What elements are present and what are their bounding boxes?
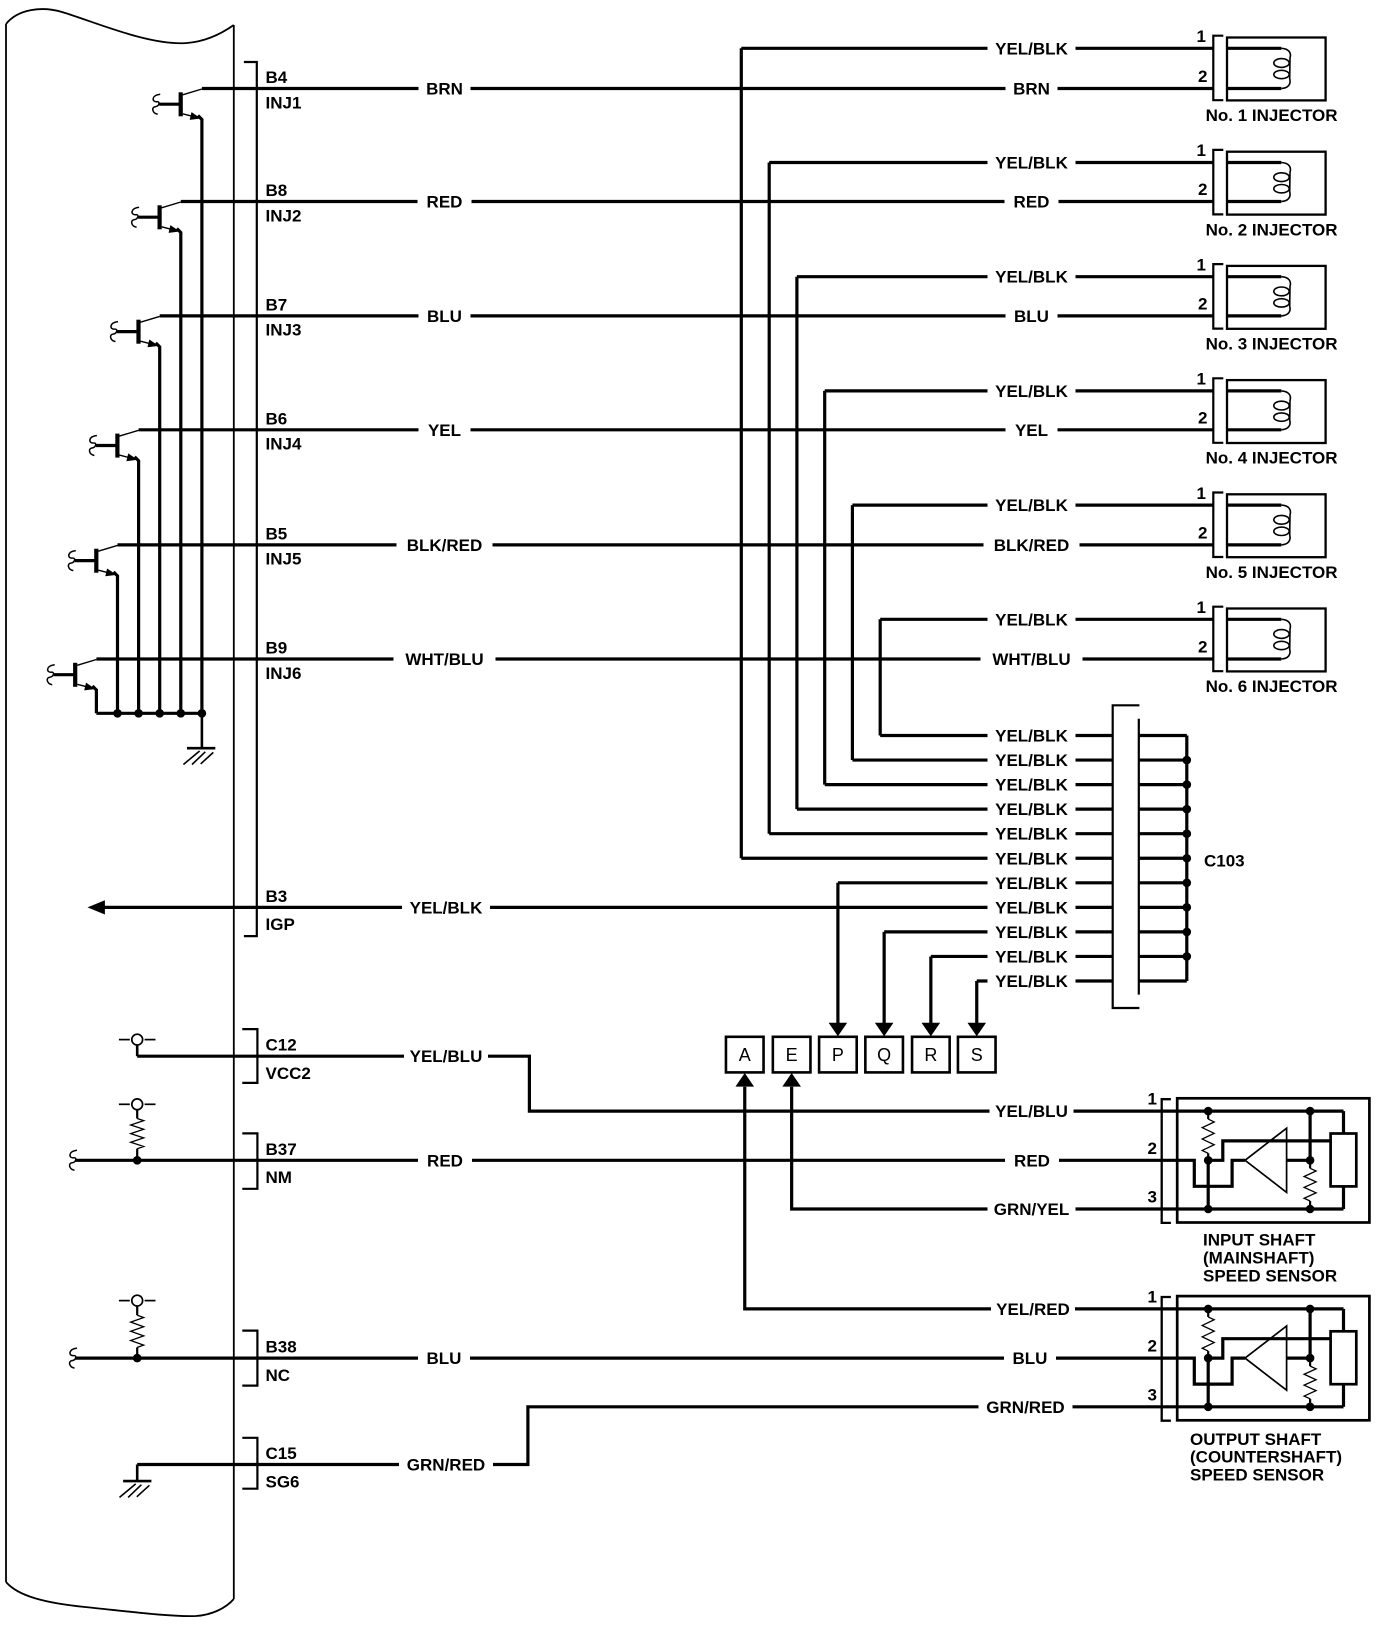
coil L No.5 injector bbox=[1274, 505, 1291, 545]
connector C103 mating half bbox=[1138, 719, 1140, 995]
terminal box Q bbox=[865, 1037, 903, 1073]
wire YEL/BLK C103 pin row 4 bbox=[797, 808, 1113, 811]
pin label C15/SG6 bbox=[266, 1444, 300, 1491]
terminal box A bbox=[726, 1037, 764, 1073]
connector bracket No.5 injector bbox=[1213, 493, 1223, 558]
svg-text:2: 2 bbox=[1198, 409, 1207, 428]
svg-text:Q: Q bbox=[877, 1045, 891, 1065]
junction top rail / right bus bbox=[1306, 1305, 1315, 1314]
label output shaft speed sensor bbox=[1190, 1430, 1342, 1485]
wire sensor internal top rail bbox=[1177, 1307, 1343, 1310]
wire C103 common bus bbox=[1185, 736, 1188, 982]
label YEL/BLU (right) bbox=[990, 1102, 1074, 1120]
resistor load (box) bbox=[1331, 1134, 1357, 1187]
svg-text:B9: B9 bbox=[266, 639, 288, 658]
svg-text:INPUT SHAFT: INPUT SHAFT bbox=[1203, 1231, 1316, 1250]
wire C103 pin 4 stub bbox=[1139, 808, 1187, 811]
label YEL/BLK C103 row 3 bbox=[988, 776, 1076, 794]
wire C103 pin 3 stub bbox=[1139, 783, 1187, 786]
wire sensor internal bottom rail bbox=[1177, 1207, 1343, 1210]
wire WHT/BLU ECU pin B9 to No.6 injector pin 2 bbox=[96, 657, 1213, 660]
svg-text:NM: NM bbox=[266, 1168, 292, 1187]
wire vertical to terminal Q bbox=[883, 932, 886, 1025]
label YEL/BLK C103 row 5 bbox=[988, 825, 1076, 843]
label YEL/BLK B3 bbox=[402, 898, 490, 916]
svg-text:YEL: YEL bbox=[428, 421, 461, 440]
label YEL (right) bbox=[1006, 421, 1058, 439]
connector bracket B38 bbox=[242, 1331, 257, 1386]
pin label B8/INJ2 bbox=[266, 181, 302, 225]
transistor INJ4 driver bbox=[89, 430, 138, 461]
coil L No.2 injector bbox=[1274, 163, 1291, 202]
No.5 injector body bbox=[1227, 494, 1326, 557]
transistor INJ5 driver bbox=[68, 545, 117, 576]
wire right bus bbox=[1308, 1309, 1311, 1358]
wire BLK/RED ECU pin B5 to No.5 injector pin 2 bbox=[118, 543, 1214, 546]
svg-text:C12: C12 bbox=[266, 1036, 297, 1055]
wire YEL/BLK vertical injector 4 to C103 bbox=[823, 391, 826, 785]
svg-text:B4: B4 bbox=[266, 68, 288, 87]
resistor sensor left pull-up bbox=[1207, 1309, 1209, 1317]
wire YEL/BLK C103 pin row 1 bbox=[880, 734, 1112, 737]
svg-text:YEL/RED: YEL/RED bbox=[996, 1300, 1070, 1319]
No.2 injector body bbox=[1227, 152, 1326, 215]
svg-text:2: 2 bbox=[1148, 1337, 1157, 1356]
svg-text:YEL/BLK: YEL/BLK bbox=[995, 382, 1068, 401]
wire load resistor to bottom rail bbox=[1342, 1186, 1345, 1209]
svg-text:RED: RED bbox=[427, 1151, 463, 1170]
wire emitter common bus bbox=[96, 712, 201, 715]
wire YEL/BLK vertical injector 5 to C103 bbox=[851, 505, 854, 760]
svg-text:INJ6: INJ6 bbox=[266, 664, 302, 683]
junction bottom rail / right resistor bbox=[1306, 1403, 1315, 1412]
svg-text:3: 3 bbox=[1148, 1385, 1157, 1404]
label WHT/BLU (left) bbox=[394, 650, 496, 668]
svg-text:B38: B38 bbox=[266, 1338, 297, 1357]
svg-text:INJ4: INJ4 bbox=[266, 435, 302, 454]
junction top rail / left resistor bbox=[1204, 1107, 1213, 1116]
wire YEL/BLK No.5 injector pin 1 bbox=[852, 504, 1213, 507]
junction C103 bus row 2 bbox=[1183, 756, 1192, 765]
wire injector 6 coil lead pin 1 bbox=[1227, 618, 1281, 621]
wire C103 pin 1 stub bbox=[1139, 734, 1187, 737]
svg-text:BRN: BRN bbox=[1013, 80, 1050, 99]
pin label B3/IGP bbox=[266, 887, 295, 934]
No.3 injector body bbox=[1227, 266, 1326, 329]
svg-text:RED: RED bbox=[1014, 193, 1050, 212]
svg-text:RED: RED bbox=[1014, 1151, 1050, 1170]
op-amp comparator bbox=[1245, 1326, 1287, 1390]
wire YEL/BLK C103 row 9 to terminal Q bbox=[884, 930, 1113, 933]
wire C103 pin 11 stub bbox=[1139, 979, 1187, 982]
wire YEL/BLK vertical injector 2 to C103 bbox=[768, 163, 771, 834]
wire amp output to right bus bbox=[1287, 1356, 1311, 1359]
wire injector 1 coil lead pin 2 bbox=[1227, 87, 1281, 90]
terminal box R bbox=[912, 1037, 950, 1073]
terminal pull-up B37 bbox=[119, 1099, 156, 1119]
svg-text:YEL/BLK: YEL/BLK bbox=[995, 496, 1068, 515]
wire C103 pin 2 stub bbox=[1139, 758, 1187, 761]
svg-text:3: 3 bbox=[1148, 1188, 1157, 1207]
svg-text:YEL/BLK: YEL/BLK bbox=[995, 751, 1068, 770]
coil L No.3 injector bbox=[1274, 277, 1291, 316]
wire vertical to terminal P bbox=[836, 883, 839, 1025]
transistor INJ6 driver bbox=[47, 660, 96, 691]
wire YEL/BLK C103 pin row 5 bbox=[769, 832, 1112, 835]
svg-text:YEL/BLK: YEL/BLK bbox=[995, 874, 1068, 893]
connector bracket ECU pins B4-B3 bbox=[244, 62, 257, 936]
junction emitter bus / INJ3 bbox=[155, 709, 164, 718]
label YEL/BLK C103 row 6 bbox=[988, 849, 1076, 867]
wire YEL/BLK No.4 injector pin 1 bbox=[825, 389, 1214, 392]
junction C103 bus row 10 bbox=[1183, 952, 1192, 961]
junction bottom rail / left branch bbox=[1204, 1403, 1213, 1412]
label BLU output sensor bbox=[1004, 1349, 1056, 1367]
wire C103 pin 10 stub bbox=[1139, 955, 1187, 958]
wire YEL/BLK No.2 injector pin 1 bbox=[769, 161, 1213, 164]
junction C103 bus row 6 bbox=[1183, 854, 1192, 863]
resistor sensor right bbox=[1309, 1358, 1311, 1366]
arrow into terminal E bbox=[782, 1073, 801, 1087]
connector bracket No.6 injector bbox=[1213, 607, 1223, 672]
ground (injector drivers) bbox=[183, 748, 215, 764]
label YEL/BLK injector 3 pin1 bbox=[988, 268, 1076, 286]
connector bracket C12 bbox=[242, 1029, 257, 1083]
wire YEL/BLK C103 pin row 2 bbox=[852, 758, 1112, 761]
wire amp output to right bus bbox=[1287, 1159, 1311, 1162]
svg-text:YEL/BLU: YEL/BLU bbox=[995, 1102, 1068, 1121]
junction left resistor / signal node bbox=[1204, 1156, 1213, 1165]
input shaft speed sensor body bbox=[1177, 1098, 1369, 1222]
wire injector 3 coil lead pin 2 bbox=[1227, 314, 1281, 317]
svg-text:YEL/BLK: YEL/BLK bbox=[995, 849, 1068, 868]
svg-text:No. 2 INJECTOR: No. 2 INJECTOR bbox=[1206, 220, 1338, 239]
wire C103 pin 9 stub bbox=[1139, 930, 1187, 933]
label RED input sensor bbox=[1005, 1151, 1059, 1169]
svg-text:1: 1 bbox=[1148, 1287, 1157, 1306]
wire YEL/BLK C103 row 11 to terminal S bbox=[977, 979, 1113, 982]
svg-text:1: 1 bbox=[1197, 598, 1206, 617]
wire continuation mark B38 bbox=[70, 1348, 77, 1368]
arrow IGP out (left) bbox=[88, 900, 105, 914]
svg-text:IGP: IGP bbox=[266, 915, 295, 934]
pin label B9/INJ6 bbox=[266, 639, 302, 683]
junction C103 bus row 8 bbox=[1183, 903, 1192, 912]
ground SG6 bbox=[120, 1465, 152, 1498]
pin label C12/VCC2 bbox=[266, 1036, 311, 1083]
wire pin 2 entry jog bbox=[1177, 1358, 1245, 1384]
resistor pull-up NM bbox=[131, 1119, 144, 1149]
wire BLU B38 NC to output sensor pin 2 bbox=[75, 1356, 1177, 1359]
wire YEL/BLK vertical injector 3 to C103 bbox=[795, 277, 798, 809]
No.4 injector body bbox=[1227, 380, 1326, 443]
svg-text:No. 1 INJECTOR: No. 1 INJECTOR bbox=[1206, 106, 1338, 125]
wire vertical to terminal S bbox=[975, 981, 978, 1025]
svg-text:RED: RED bbox=[427, 193, 463, 212]
label BRN (left) bbox=[419, 80, 471, 98]
svg-text:INJ3: INJ3 bbox=[266, 321, 302, 340]
transistor INJ1 driver bbox=[153, 89, 202, 120]
ECU sheet torn top edge bbox=[6, 9, 234, 43]
junction bottom rail / right resistor bbox=[1306, 1205, 1315, 1214]
label YEL/BLK C103 row 8 bbox=[988, 898, 1076, 916]
terminal VCC2 supply bbox=[119, 1034, 156, 1056]
svg-text:E: E bbox=[786, 1045, 798, 1065]
svg-text:OUTPUT SHAFT: OUTPUT SHAFT bbox=[1190, 1430, 1322, 1449]
svg-text:2: 2 bbox=[1198, 180, 1207, 199]
svg-text:YEL/BLK: YEL/BLK bbox=[995, 268, 1068, 287]
terminal box P bbox=[819, 1037, 857, 1073]
svg-text:2: 2 bbox=[1198, 67, 1207, 86]
label YEL/BLK C103 row 10 bbox=[988, 947, 1076, 965]
label YEL (left) bbox=[419, 421, 471, 439]
arrow into terminal S bbox=[967, 1023, 986, 1036]
wire YEL/BLK C103 pin row 6 bbox=[741, 857, 1112, 860]
pin label B5/INJ5 bbox=[266, 524, 302, 568]
junction C103 bus row 5 bbox=[1183, 829, 1192, 838]
wire YEL/BLK No.6 injector pin 1 bbox=[880, 618, 1213, 621]
wire signal node to bottom rail bbox=[1207, 1160, 1210, 1209]
label YEL/BLK C103 row 4 bbox=[988, 800, 1076, 818]
svg-text:YEL/BLK: YEL/BLK bbox=[995, 825, 1068, 844]
label BLU (right) bbox=[1006, 307, 1058, 325]
svg-text:1: 1 bbox=[1197, 255, 1206, 274]
wire YEL/RED terminal A to output sensor pin 1 bbox=[745, 1087, 1177, 1309]
svg-text:2: 2 bbox=[1198, 524, 1207, 543]
label YEL/BLK C103 row 9 bbox=[988, 923, 1076, 941]
svg-text:INJ2: INJ2 bbox=[266, 206, 302, 225]
svg-text:B37: B37 bbox=[266, 1140, 297, 1159]
svg-text:B3: B3 bbox=[266, 887, 288, 906]
svg-text:BRN: BRN bbox=[426, 80, 463, 99]
svg-text:SG6: SG6 bbox=[266, 1472, 300, 1491]
svg-text:YEL: YEL bbox=[1015, 421, 1048, 440]
terminal pull-up B38 bbox=[119, 1295, 156, 1315]
wire injector 1 coil lead pin 1 bbox=[1227, 47, 1281, 50]
wire YEL/BLK vertical injector 1 to C103 bbox=[740, 48, 743, 858]
label YEL/BLK injector 5 pin1 bbox=[988, 496, 1076, 514]
junction emitter bus / INJ5 bbox=[113, 709, 122, 718]
pin label B37/NM bbox=[266, 1140, 297, 1187]
resistor sensor right bbox=[1309, 1160, 1311, 1168]
wire emitter INJ4 to ground bus bbox=[135, 457, 139, 714]
svg-text:NC: NC bbox=[266, 1366, 291, 1385]
No.1 injector body bbox=[1227, 38, 1326, 101]
label YEL/BLK injector 2 pin1 bbox=[988, 154, 1076, 172]
svg-text:YEL/BLK: YEL/BLK bbox=[995, 776, 1068, 795]
arrow into terminal A bbox=[735, 1073, 754, 1087]
label BLU B38 bbox=[418, 1349, 470, 1367]
label YEL/BLK injector 6 pin1 bbox=[988, 610, 1076, 628]
terminal box S bbox=[958, 1037, 996, 1073]
op-amp comparator bbox=[1245, 1128, 1287, 1192]
label GRN/RED (left) bbox=[399, 1456, 493, 1474]
connector bracket No.2 injector bbox=[1213, 150, 1223, 215]
junction C103 bus row 3 bbox=[1183, 780, 1192, 789]
wire injector 4 coil lead pin 1 bbox=[1227, 389, 1281, 392]
wire YEL/BLK No.3 injector pin 1 bbox=[797, 275, 1213, 278]
transistor INJ2 driver bbox=[132, 202, 181, 233]
svg-text:B7: B7 bbox=[266, 295, 288, 314]
wire BLU ECU pin B7 to No.3 injector pin 2 bbox=[160, 314, 1214, 317]
svg-text:GRN/RED: GRN/RED bbox=[986, 1398, 1064, 1417]
label RED (right) bbox=[1005, 193, 1059, 211]
connector bracket No.4 injector bbox=[1213, 378, 1223, 443]
wire YEL/BLK C103 row 7 to terminal P bbox=[838, 881, 1113, 884]
terminal box E bbox=[773, 1037, 811, 1073]
svg-text:VCC2: VCC2 bbox=[266, 1064, 311, 1083]
label input shaft speed sensor bbox=[1203, 1231, 1337, 1286]
svg-text:1: 1 bbox=[1148, 1090, 1157, 1109]
junction left resistor / signal node bbox=[1204, 1354, 1213, 1363]
svg-text:(MAINSHAFT): (MAINSHAFT) bbox=[1203, 1249, 1314, 1268]
wire BRN ECU pin B4 to No.1 injector pin 2 bbox=[202, 87, 1213, 90]
wire signal node to bottom rail bbox=[1207, 1358, 1210, 1407]
connector C103 bracket bbox=[1113, 705, 1140, 1008]
coil L No.4 injector bbox=[1274, 391, 1291, 430]
svg-text:No. 5 INJECTOR: No. 5 INJECTOR bbox=[1206, 563, 1338, 582]
wire injector 6 coil lead pin 2 bbox=[1227, 657, 1281, 660]
svg-text:YEL/BLK: YEL/BLK bbox=[995, 898, 1068, 917]
wire GRN/RED C15 SG6 to output sensor pin 3 bbox=[137, 1407, 1177, 1465]
label WHT/BLU (right) bbox=[981, 650, 1083, 668]
wire signal node to amp upper input bbox=[1208, 1339, 1330, 1358]
arrow into terminal R bbox=[922, 1023, 941, 1036]
junction C103 bus row 7 bbox=[1183, 879, 1192, 888]
svg-text:BLK/RED: BLK/RED bbox=[994, 536, 1070, 555]
svg-text:YEL/BLK: YEL/BLK bbox=[995, 39, 1068, 58]
label BLK/RED (right) bbox=[984, 536, 1080, 554]
label BLU (left) bbox=[419, 307, 471, 325]
wire injector 5 coil lead pin 2 bbox=[1227, 543, 1281, 546]
pin label B38/NC bbox=[266, 1338, 297, 1385]
svg-text:S: S bbox=[971, 1045, 983, 1065]
svg-text:GRN/YEL: GRN/YEL bbox=[994, 1200, 1070, 1219]
svg-text:WHT/BLU: WHT/BLU bbox=[405, 650, 483, 669]
svg-text:B6: B6 bbox=[266, 409, 288, 428]
wire injector 3 coil lead pin 1 bbox=[1227, 275, 1281, 278]
wire YEL ECU pin B6 to No.4 injector pin 2 bbox=[139, 428, 1214, 431]
wire RED B37 NM to input sensor pin 2 bbox=[75, 1159, 1177, 1162]
ECU sheet left border bbox=[5, 24, 7, 1582]
svg-text:SPEED SENSOR: SPEED SENSOR bbox=[1190, 1466, 1324, 1485]
wire C103 pin 8 stub bbox=[1139, 906, 1187, 909]
svg-text:C15: C15 bbox=[266, 1444, 297, 1463]
svg-text:YEL/BLK: YEL/BLK bbox=[995, 610, 1068, 629]
junction top rail / right bus bbox=[1306, 1107, 1315, 1116]
pin label B6/INJ4 bbox=[266, 409, 302, 453]
wire injector 2 coil lead pin 2 bbox=[1227, 200, 1281, 203]
wire bus to ground bbox=[201, 713, 204, 748]
wire YEL/BLK C103 row 10 to terminal R bbox=[931, 955, 1113, 958]
wire pin 2 entry jog bbox=[1177, 1160, 1245, 1186]
wire C103 pin 6 stub bbox=[1139, 857, 1187, 860]
arrow into terminal Q bbox=[875, 1023, 894, 1036]
wire emitter INJ6 to ground bus bbox=[92, 686, 96, 713]
label BLK/RED (left) bbox=[397, 536, 493, 554]
svg-text:BLU: BLU bbox=[1013, 1349, 1048, 1368]
svg-text:2: 2 bbox=[1148, 1139, 1157, 1158]
svg-text:WHT/BLU: WHT/BLU bbox=[992, 650, 1070, 669]
wire emitter INJ3 to ground bus bbox=[156, 343, 160, 713]
svg-text:YEL/BLK: YEL/BLK bbox=[410, 898, 483, 917]
svg-text:No. 6 INJECTOR: No. 6 INJECTOR bbox=[1206, 677, 1338, 696]
wire YEL/BLK No.1 injector pin 1 bbox=[741, 47, 1213, 50]
label BRN (right) bbox=[1006, 80, 1058, 98]
svg-text:YEL/BLK: YEL/BLK bbox=[995, 727, 1068, 746]
label YEL/BLK C103 row 1 bbox=[988, 727, 1076, 745]
svg-text:SPEED SENSOR: SPEED SENSOR bbox=[1203, 1266, 1337, 1285]
wire signal node to amp upper input bbox=[1208, 1141, 1330, 1160]
wire injector 5 coil lead pin 1 bbox=[1227, 504, 1281, 507]
wire injector 2 coil lead pin 1 bbox=[1227, 161, 1281, 164]
svg-text:B8: B8 bbox=[266, 181, 288, 200]
wire load resistor to bottom rail bbox=[1342, 1384, 1345, 1407]
svg-text:YEL/BLK: YEL/BLK bbox=[995, 923, 1068, 942]
wire top rail to load resistor bbox=[1342, 1309, 1345, 1331]
arrow into terminal P bbox=[829, 1023, 848, 1036]
wire sensor internal top rail bbox=[1177, 1109, 1343, 1112]
junction C103 bus row 9 bbox=[1183, 928, 1192, 937]
wire emitter INJ1 to ground bus bbox=[198, 116, 202, 714]
svg-text:INJ1: INJ1 bbox=[266, 93, 302, 112]
label RED B37 bbox=[418, 1151, 472, 1169]
label YEL/BLK injector 1 pin1 bbox=[988, 39, 1076, 57]
junction emitter bus / INJ1 bbox=[198, 709, 207, 718]
junction B38 wire bbox=[133, 1354, 142, 1363]
wire YEL/BLU C12 VCC2 to input sensor pin 1 bbox=[137, 1056, 1177, 1111]
resistor load (box) bbox=[1331, 1331, 1357, 1384]
svg-text:GRN/RED: GRN/RED bbox=[407, 1456, 485, 1475]
label YEL/BLK injector 4 pin1 bbox=[988, 382, 1076, 400]
wire YEL/BLK C103 pin row 3 bbox=[825, 783, 1113, 786]
output shaft speed sensor body bbox=[1177, 1296, 1369, 1420]
junction right bus / amp output bbox=[1306, 1354, 1315, 1363]
junction B37 wire bbox=[133, 1156, 142, 1165]
svg-text:C103: C103 bbox=[1204, 852, 1245, 871]
svg-text:YEL/BLU: YEL/BLU bbox=[410, 1047, 483, 1066]
connector bracket input shaft speed sensor bbox=[1162, 1099, 1171, 1223]
svg-text:YEL/BLK: YEL/BLK bbox=[995, 947, 1068, 966]
wire continuation mark B37 bbox=[70, 1150, 77, 1170]
resistor sensor left pull-up bbox=[1207, 1111, 1209, 1119]
svg-text:INJ5: INJ5 bbox=[266, 550, 302, 569]
junction emitter bus / INJ4 bbox=[134, 709, 143, 718]
svg-text:BLU: BLU bbox=[1014, 307, 1049, 326]
wire C103 pin 5 stub bbox=[1139, 832, 1187, 835]
wire RED ECU pin B8 to No.2 injector pin 2 bbox=[181, 200, 1214, 203]
ECU sheet right border bbox=[233, 25, 235, 1599]
label GRN/YEL bbox=[988, 1200, 1076, 1218]
pin label B4/INJ1 bbox=[266, 68, 302, 112]
pin label B7/INJ3 bbox=[266, 295, 302, 339]
svg-text:2: 2 bbox=[1198, 295, 1207, 314]
svg-text:1: 1 bbox=[1197, 27, 1206, 46]
wire YEL/BLK B3 IGP to C103 bbox=[103, 906, 1113, 909]
wire vertical to terminal R bbox=[929, 956, 932, 1024]
label GRN/RED (right) bbox=[979, 1398, 1073, 1416]
connector bracket C15 bbox=[242, 1438, 257, 1489]
svg-text:1: 1 bbox=[1197, 370, 1206, 389]
label YEL/BLK C103 row 7 bbox=[988, 874, 1076, 892]
transistor INJ3 driver bbox=[111, 316, 160, 347]
svg-text:No. 4 INJECTOR: No. 4 INJECTOR bbox=[1206, 449, 1338, 468]
wire GRN/YEL terminal E to input sensor pin 3 bbox=[792, 1087, 1178, 1209]
connector bracket No.3 injector bbox=[1213, 264, 1223, 329]
wire injector 4 coil lead pin 2 bbox=[1227, 428, 1281, 431]
svg-text:(COUNTERSHAFT): (COUNTERSHAFT) bbox=[1190, 1448, 1342, 1467]
svg-text:2: 2 bbox=[1198, 638, 1207, 657]
